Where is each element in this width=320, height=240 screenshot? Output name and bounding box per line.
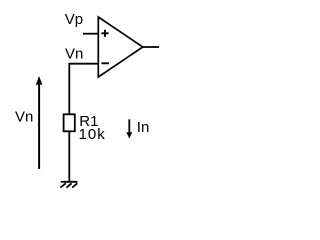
- svg-text:Vp: Vp: [65, 11, 83, 28]
- svg-text:Vn: Vn: [65, 45, 83, 62]
- svg-text:10k: 10k: [79, 126, 106, 143]
- op-amp plus mark: [101, 30, 108, 37]
- current arrow In: [126, 119, 132, 139]
- resistor R1: [64, 114, 75, 131]
- svg-text:In: In: [137, 119, 150, 136]
- svg-text:Vn: Vn: [15, 109, 33, 126]
- op-amp minus mark: [101, 62, 109, 64]
- wire output: [143, 46, 159, 48]
- wire noninverting input: [83, 33, 98, 35]
- op-amp U1: [98, 17, 143, 77]
- voltage arrow Vn: [36, 76, 43, 169]
- wire inverting input: [69, 64, 98, 115]
- wire resistor to ground: [68, 131, 70, 181]
- ground: [60, 182, 77, 188]
